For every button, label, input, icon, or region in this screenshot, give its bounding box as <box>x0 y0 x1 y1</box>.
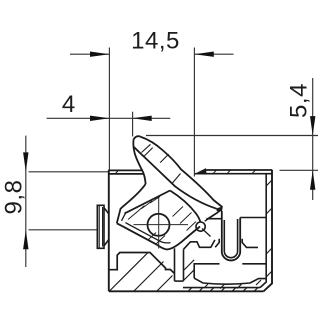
seal blob at shelf <box>196 222 205 231</box>
seal left arm outer edge from lip to beak tip <box>117 184 146 223</box>
dim text 5,4 (rotated) <box>286 83 313 118</box>
hatch left strip of insert <box>184 260 194 280</box>
collar left rise <box>184 239 220 250</box>
lip rung 4 <box>172 174 181 184</box>
arrow 9,8 top (points down, tip 171.8) <box>23 152 28 171</box>
lip tip cap <box>134 136 141 139</box>
beak bottom corner <box>117 223 123 226</box>
extension line 5,4 top y=135.5 <box>146 135 318 137</box>
lip outer edge <box>140 137 222 207</box>
arrow 14,5 left (points right) <box>90 52 109 57</box>
tab inner verticals <box>99 205 102 248</box>
hatch bottom strip <box>188 288 258 292</box>
arrow 5,4 bottom (points up, tip 168.5) <box>310 170 315 189</box>
notch right wall <box>183 249 185 281</box>
dim line 5,4 vertical <box>312 78 314 200</box>
dim line 14,5 left tail <box>70 53 109 55</box>
lip tail line 1 <box>206 210 220 219</box>
beak inner short edge <box>122 212 127 221</box>
dim line 9,8 vertical <box>25 136 27 267</box>
extension line right x=194.4 <box>193 48 195 177</box>
lip rung 1 <box>142 144 151 152</box>
seal upper boundary diagonal <box>125 191 171 214</box>
svg-text:14,5: 14,5 <box>131 28 180 55</box>
trough outline right <box>242 263 266 265</box>
shelf left of U <box>207 218 222 220</box>
trough outline left <box>194 264 219 278</box>
lip rung 2 <box>144 148 152 156</box>
hole circle <box>148 214 170 236</box>
lip inner edge <box>133 146 216 208</box>
body top edge outer line <box>109 169 272 171</box>
shelf right of U <box>240 217 266 219</box>
arrow 14,5 right (points left) <box>194 52 213 57</box>
body right edge inner <box>260 174 266 288</box>
lip tail line 2 <box>205 212 218 221</box>
dim text 9,8 (rotated) <box>1 180 28 215</box>
body bottom edge outer <box>109 290 264 292</box>
seal lower boundary outer <box>122 226 200 249</box>
arrow 5,4 top (points down, tip 135.5) <box>310 116 315 135</box>
svg-text:9,8: 9,8 <box>1 180 28 215</box>
hole horizontal centerline <box>134 224 189 226</box>
lip rung 3 <box>160 154 168 163</box>
svg-text:4: 4 <box>62 91 75 118</box>
lip left concave edge <box>133 140 145 185</box>
tab bottom chamfer <box>104 240 109 246</box>
body bottom edge inner <box>183 287 260 289</box>
hole vertical centerline <box>158 198 160 249</box>
arrow 4 right (points left, tip at 132.3) <box>132 116 151 121</box>
extension line left x=109.4 <box>108 48 110 172</box>
U inner <box>224 219 237 258</box>
body right edge outer <box>264 170 273 292</box>
seal upper boundary curve to blob <box>170 191 200 223</box>
notch bottom <box>175 280 184 282</box>
arrow 9,8 bottom (points up, tip 229.8) <box>23 230 28 249</box>
trough bottom arc <box>194 278 266 284</box>
tab outline <box>97 205 104 248</box>
extension line 9,8 bottom y=229.8 <box>29 229 97 231</box>
seal edge from blob to collar <box>202 229 211 237</box>
hatch top strip <box>115 170 256 174</box>
block outline <box>109 253 175 274</box>
dim line 4 <box>47 117 171 119</box>
body top edge inner line <box>109 173 272 175</box>
collar right chamfer <box>242 239 258 248</box>
arrow 4 left (points right, tip at 109.4) <box>90 116 109 121</box>
dim text 4 <box>62 91 75 118</box>
body left edge <box>108 170 110 292</box>
U outer <box>222 211 240 260</box>
extension line 5,4 bottom y=168.5 <box>280 169 319 171</box>
seal lower boundary inner <box>125 223 170 243</box>
dim line 14,5 right tail <box>194 53 233 55</box>
lip tip end marks <box>217 207 223 211</box>
block hatch <box>110 253 173 291</box>
wedge where top strip ends under lip <box>195 168 207 174</box>
notch left wall <box>174 248 176 281</box>
hatch under trough arc <box>204 280 261 289</box>
svg-text:5,4: 5,4 <box>286 83 313 118</box>
hatch right wall <box>266 180 272 277</box>
dim text 14,5 <box>131 28 180 55</box>
extension tick x=132.6 <box>132 112 134 137</box>
tab top chamfer <box>104 208 109 214</box>
seal hatch lines <box>128 197 196 244</box>
extension line 9,8 top y=171.8 <box>29 171 109 173</box>
